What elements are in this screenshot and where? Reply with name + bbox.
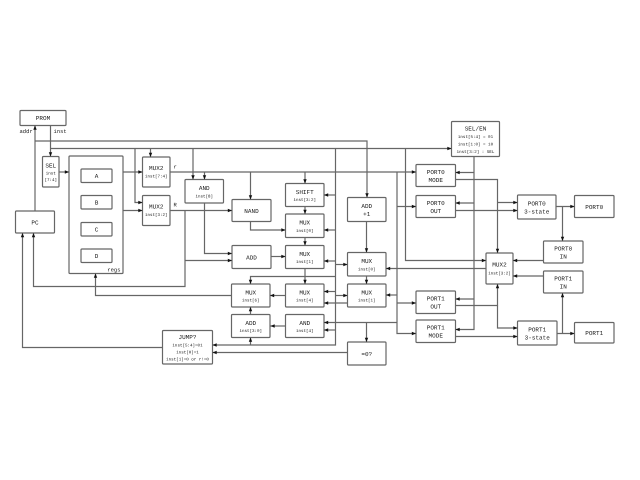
wire r to NAND	[249, 172, 252, 200]
svg-text:inst[8]: inst[8]	[195, 194, 213, 199]
mux MUX inst[1] left column	[286, 246, 325, 269]
svg-text:MUX: MUX	[361, 289, 372, 296]
wire inst to AND inst[8]	[191, 149, 194, 180]
wire regs to MUX2 inst[7:4]	[123, 170, 143, 173]
svg-text:PORT1: PORT1	[528, 326, 546, 333]
mux MUX2 inst[3:2]	[143, 196, 171, 226]
register PORT1 MODE	[416, 320, 456, 343]
svg-text:D: D	[95, 253, 99, 260]
wire AND inst[4] out to ADD inst[3:0]	[271, 324, 286, 327]
svg-text:MUX2: MUX2	[492, 261, 507, 268]
wire r to =0?	[365, 323, 368, 343]
wire MUX2 out to MUX inst[0] right column	[386, 267, 486, 270]
register PORT0 OUT	[416, 196, 456, 218]
decoder SEL/EN	[452, 122, 500, 157]
wire PORT1 MODE to PORT1 3-state	[456, 335, 518, 338]
adder ADD +1	[348, 198, 387, 222]
wire inst to MUX inst[0] left column	[324, 228, 336, 231]
wire inst to AND inst[4]	[324, 328, 336, 331]
wire SEL to regs	[59, 170, 69, 173]
wire inst to MUX inst[1] left column	[324, 259, 336, 262]
mux MUX inst[1] right column	[348, 284, 387, 307]
svg-text:inst[3:2]: inst[3:2]	[293, 198, 316, 203]
svg-text:inst[1]=0 or r!=0: inst[1]=0 or r!=0	[166, 357, 209, 362]
register D	[81, 249, 112, 263]
svg-text:inst[1]: inst[1]	[358, 298, 376, 303]
svg-text:inst[3:2] : SEL: inst[3:2] : SEL	[457, 150, 495, 155]
label inst	[53, 128, 66, 135]
decision JUMP?	[163, 331, 213, 365]
wire R to ADD left	[185, 259, 232, 262]
svg-text:AND: AND	[199, 185, 210, 192]
wire writeback to regs	[94, 274, 232, 296]
svg-text:SHIFT: SHIFT	[296, 189, 314, 196]
svg-text:PORT1: PORT1	[427, 295, 445, 302]
wire PORT0 IN to MUX2	[513, 259, 544, 262]
wire =0? out to JUMP?	[213, 351, 348, 354]
svg-text:inst[0]: inst[0]	[296, 229, 314, 234]
svg-text:MUX: MUX	[361, 258, 372, 265]
wire MUX inst[1] right out to MUX inst[4]	[324, 301, 348, 304]
svg-text:PORT0: PORT0	[585, 204, 603, 211]
svg-text:MODE: MODE	[429, 332, 444, 339]
svg-text:addr: addr	[19, 128, 32, 135]
register PORT1 OUT	[416, 291, 456, 314]
svg-text:inst[3:2]: inst[3:2]	[488, 271, 511, 276]
svg-text:=0?: =0?	[361, 351, 372, 358]
block PC	[16, 211, 55, 233]
wire PORT0 MODE out to PORT0 3-state	[498, 201, 518, 204]
svg-text:inst[3:2]: inst[3:2]	[145, 213, 168, 218]
svg-text:inst[0]: inst[0]	[358, 267, 376, 272]
svg-text:SEL/EN: SEL/EN	[465, 125, 487, 132]
wire inst to MUX inst[1] right column	[336, 294, 348, 297]
svg-text:C: C	[95, 226, 99, 233]
wire enable to PORT0 MODE	[456, 171, 475, 174]
svg-text:[7:4]: [7:4]	[44, 178, 57, 183]
wire result bus to MUX inst[6]	[249, 277, 305, 285]
wire inst PROM to SEL	[49, 126, 52, 157]
svg-text:JUMP?: JUMP?	[178, 334, 196, 341]
svg-text:PORT1: PORT1	[427, 324, 445, 331]
label regs	[107, 266, 120, 273]
svg-text:inst[3:0]: inst[3:0]	[239, 329, 262, 334]
svg-text:ADD: ADD	[245, 320, 256, 327]
gate NAND	[232, 200, 271, 222]
svg-text:MUX2: MUX2	[149, 203, 164, 210]
wire PORT1 pad to PORT1 IN	[561, 293, 564, 334]
wire inst vertical to JUMP?	[213, 149, 336, 347]
wire MUX inst[0] out to MUX inst[1]	[303, 238, 306, 246]
wire enable to PORT1 OUT	[456, 297, 475, 300]
svg-text:inst[1]: inst[1]	[296, 260, 314, 265]
register A	[81, 169, 112, 183]
wire r to MUX inst[1] right column	[386, 293, 397, 296]
buffer PORT1 3-state	[518, 321, 558, 345]
gate AND inst[4]	[286, 315, 325, 338]
svg-text:r: r	[173, 164, 176, 171]
pad PORT1	[575, 323, 615, 344]
mux MUX inst[4]	[286, 284, 325, 307]
svg-text:inst[1:0] = 10: inst[1:0] = 10	[458, 142, 494, 147]
wire inst literal to ADD inst[3:0]	[249, 338, 252, 346]
svg-text:MUX: MUX	[299, 251, 310, 258]
wire PORT0 MODE out to MUX2 select	[456, 180, 500, 254]
mux MUX inst[0] right column	[348, 253, 387, 277]
wire PORT0 pad to PORT0 IN	[561, 207, 564, 242]
wire ADD out to MUX inst[1]	[271, 255, 286, 258]
label addr	[19, 128, 32, 135]
svg-text:inst[5:4] = 01: inst[5:4] = 01	[458, 135, 494, 140]
wire PORT1 OUT to PORT1 3-state	[498, 306, 518, 330]
block SHIFT inst[3:2]	[286, 184, 325, 207]
wire result bus down	[303, 269, 306, 285]
svg-text:MUX: MUX	[299, 219, 310, 226]
adder ADD left column	[232, 246, 271, 269]
svg-text:PROM: PROM	[36, 115, 51, 122]
pad PORT0	[575, 196, 615, 218]
svg-text:MUX: MUX	[299, 289, 310, 296]
register C	[81, 223, 112, 237]
svg-text:PORT0: PORT0	[427, 169, 445, 176]
wire PORT1 IN to MUX2	[513, 274, 544, 277]
register PORT0 IN	[544, 241, 584, 263]
svg-text:PORT1: PORT1	[585, 330, 603, 337]
wire enable to PORT0 OUT	[456, 201, 475, 204]
svg-text:inst[5:4]=01: inst[5:4]=01	[172, 343, 203, 348]
svg-text:3-state: 3-state	[524, 208, 550, 215]
mux MUX inst[6]	[232, 284, 271, 307]
svg-text:OUT: OUT	[430, 208, 441, 215]
svg-text:ADD: ADD	[361, 203, 372, 210]
svg-text:AND: AND	[299, 320, 310, 327]
register PORT1 IN	[544, 271, 584, 293]
wire MUX inst[0] right out to MUX inst[1] right	[365, 276, 368, 284]
svg-text:MUX: MUX	[245, 289, 256, 296]
wire inst to MUX inst[4]	[324, 290, 336, 293]
svg-text:inst[4]: inst[4]	[296, 298, 314, 303]
svg-text:IN: IN	[560, 253, 568, 260]
svg-text:PC: PC	[31, 219, 39, 226]
register file container regs	[69, 156, 123, 274]
wire r to SHIFT	[303, 172, 306, 184]
block SEL inst[7:4]	[43, 157, 60, 188]
wire result bus tee to inst vertical	[305, 276, 336, 278]
wire inst bus to SEL/EN	[51, 147, 452, 150]
svg-text:inst[4]: inst[4]	[296, 329, 314, 334]
label R	[173, 202, 177, 209]
wire JUMP? out to PC	[21, 233, 163, 348]
wire inst to SHIFT amount	[324, 193, 336, 196]
mux MUX inst[0] left column	[286, 214, 325, 238]
wire NAND out to MUX inst[0]	[251, 222, 286, 232]
svg-text:OUT: OUT	[430, 303, 441, 310]
wire r bus to PORT0 MODE	[170, 170, 416, 173]
wire SEL/EN enable vertical	[456, 157, 475, 332]
wire r to PORT0 OUT	[397, 205, 416, 208]
svg-text:SEL: SEL	[45, 162, 56, 169]
gate AND inst[8]	[185, 180, 224, 204]
wire inst to MUX2 port select	[406, 149, 487, 263]
comparator =0?	[348, 342, 387, 365]
wire PORT0 3-state to PORT0 pad	[556, 205, 575, 208]
wire inst to MUX inst[0] right column	[336, 263, 348, 266]
svg-text:inst: inst	[53, 128, 66, 135]
svg-text:MUX2: MUX2	[149, 165, 164, 172]
svg-text:MODE: MODE	[429, 177, 444, 184]
wire MUX inst[4] out to MUX inst[6]	[270, 294, 286, 297]
svg-text:inst[0]=1: inst[0]=1	[176, 350, 199, 355]
wire r to PORT1 OUT	[397, 301, 416, 304]
svg-text:PORT0: PORT0	[554, 245, 572, 252]
svg-text:inst: inst	[46, 171, 57, 176]
svg-text:IN: IN	[560, 283, 568, 290]
buffer PORT0 3-state	[518, 195, 557, 219]
wire PC value to ADD +1	[35, 141, 369, 198]
wire SHIFT out to MUX inst[0]	[303, 207, 306, 215]
wire regs to MUX2 inst[3:2]	[123, 209, 143, 212]
wire r drop to PORT1 MODE	[397, 172, 416, 335]
svg-text:regs: regs	[107, 266, 120, 273]
label r	[173, 164, 176, 171]
wire inst to MUX2 inst[7:4] select	[149, 149, 152, 158]
svg-text:A: A	[95, 173, 99, 180]
wire PORT0 OUT to PORT0 3-state	[456, 209, 518, 212]
svg-text:inst[6]: inst[6]	[242, 298, 260, 303]
svg-text:ADD: ADD	[246, 254, 257, 261]
wire r to AND inst[8]	[203, 172, 206, 180]
mux MUX2 inst[3:2] port select	[486, 253, 513, 284]
register PORT0 MODE	[416, 165, 456, 187]
adder ADD inst[3:0]	[232, 315, 271, 338]
register B	[81, 196, 112, 210]
wire R to PC	[32, 211, 185, 287]
svg-text:PORT0: PORT0	[528, 200, 546, 207]
svg-text:PORT0: PORT0	[427, 200, 445, 207]
wire AND inst[8] out to ADD	[205, 203, 233, 255]
svg-text:inst[7:4]: inst[7:4]	[145, 174, 168, 179]
block PROM	[20, 111, 66, 126]
wire inst to MUX2 inst[3:2] select	[135, 149, 143, 205]
wire R bus to NAND	[170, 209, 232, 212]
wire addr PC to PROM	[33, 126, 36, 212]
wire r to AND inst[4]	[324, 321, 397, 324]
wire ADD +1 out to MUX inst[0] right	[365, 222, 368, 253]
wire PORT1 OUT to MUX2	[456, 284, 500, 306]
svg-text:3-state: 3-state	[525, 334, 551, 341]
svg-text:B: B	[95, 199, 99, 206]
mux MUX2 inst[7:4]	[143, 157, 171, 187]
wire PORT1 3-state to PORT1 pad	[557, 332, 575, 335]
svg-text:+1: +1	[363, 211, 371, 218]
svg-text:PORT1: PORT1	[554, 275, 572, 282]
svg-text:NAND: NAND	[244, 208, 259, 215]
wire ADD inst[3:0] out to MUX inst[6]	[249, 307, 252, 315]
